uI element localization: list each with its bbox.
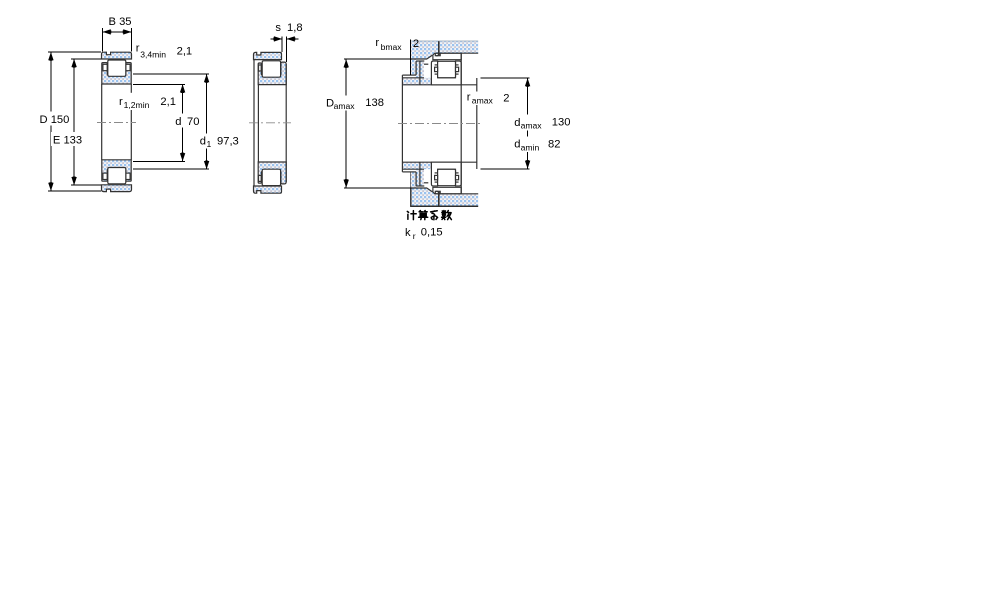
spacer sleeve hatch bottom bbox=[411, 172, 416, 188]
glyph suan bbox=[419, 211, 428, 220]
bearing right face silhouette view3 bbox=[460, 53, 462, 193]
roller top view2 bbox=[262, 61, 280, 77]
svg-text:1,2min: 1,2min bbox=[124, 100, 150, 110]
svg-text:r: r bbox=[119, 96, 123, 108]
centerline view3 bbox=[398, 123, 482, 125]
glyph ji bbox=[407, 211, 416, 220]
cage sections view2 bbox=[259, 65, 262, 71]
bearing outer ring bottom view3 bbox=[433, 187, 461, 193]
svg-text:3,4min: 3,4min bbox=[140, 49, 166, 59]
svg-text:amin: amin bbox=[521, 143, 540, 153]
svg-text:B 35: B 35 bbox=[109, 16, 132, 28]
spacer sleeve hatch top bbox=[411, 59, 416, 75]
svg-text:r: r bbox=[136, 43, 140, 55]
centerline view2 bbox=[249, 122, 291, 124]
silhouette lines view2 bbox=[253, 60, 255, 186]
dimension D 150 bbox=[48, 51, 101, 53]
dimension B 35 bbox=[102, 28, 104, 51]
roller top view1 bbox=[108, 60, 126, 76]
svg-text:d: d bbox=[200, 135, 206, 147]
svg-text:d: d bbox=[514, 117, 520, 129]
svg-text:138: 138 bbox=[365, 97, 384, 109]
housing section top bbox=[411, 41, 478, 59]
roller top view3 bbox=[438, 61, 456, 77]
inner ring bottom section view2 bbox=[258, 162, 286, 184]
svg-text:r: r bbox=[413, 231, 416, 241]
locating pin top bbox=[438, 41, 440, 55]
dimension da max / da min bbox=[480, 77, 529, 79]
svg-text:amax: amax bbox=[472, 95, 494, 105]
label ra max 2 bbox=[466, 92, 497, 106]
cage sections bottom view1 bbox=[103, 173, 107, 179]
svg-text:r: r bbox=[467, 91, 471, 103]
inner ring bottom view3 bbox=[431, 162, 461, 186]
svg-text:2,1: 2,1 bbox=[177, 46, 193, 58]
svg-text:E 133: E 133 bbox=[53, 134, 82, 146]
dimension d1 97,3 bbox=[133, 73, 209, 75]
locating pin bottom bbox=[438, 192, 440, 207]
svg-text:97,3: 97,3 bbox=[217, 135, 239, 147]
cage top view3 bbox=[435, 64, 438, 66]
centerline view1 bbox=[97, 122, 136, 124]
inner ring top view3 bbox=[431, 61, 461, 85]
svg-text:D 150: D 150 bbox=[40, 114, 70, 126]
housing bore line top bbox=[437, 52, 478, 54]
CJK caption 计算系数 bbox=[407, 211, 451, 220]
glyph shu bbox=[442, 211, 452, 220]
inner ring top section view2 bbox=[258, 62, 286, 85]
shaft shoulder bar bottom bbox=[402, 162, 432, 169]
housing shoulder chamfer bottom bbox=[426, 188, 432, 192]
svg-text:d: d bbox=[175, 116, 181, 128]
outer ring top section view1 bbox=[102, 52, 132, 59]
svg-text:2,1: 2,1 bbox=[160, 96, 176, 108]
abutment step lines bottom bbox=[402, 171, 416, 173]
svg-text:1: 1 bbox=[207, 139, 212, 149]
cage sections top view1 bbox=[103, 64, 107, 70]
bore silhouette lines view1 bbox=[101, 84, 103, 160]
svg-text:130: 130 bbox=[552, 116, 571, 128]
svg-text:0,15: 0,15 bbox=[421, 227, 443, 239]
roller bottom view3 bbox=[438, 169, 456, 185]
housing bore line bottom bbox=[437, 193, 478, 195]
shaft left edge bbox=[401, 75, 403, 172]
shaft surface top bbox=[402, 84, 476, 86]
label r1,2min 2,1 bbox=[117, 93, 185, 110]
svg-text:r: r bbox=[375, 37, 379, 49]
svg-text:2: 2 bbox=[503, 93, 509, 105]
housing section bottom bbox=[411, 188, 478, 206]
dimension s 1,8 bbox=[281, 37, 283, 52]
white gap beside inner ring top bbox=[424, 64, 431, 77]
roller bottom view2 bbox=[262, 169, 280, 185]
svg-text:k: k bbox=[405, 227, 411, 239]
inner ring top section view1 bbox=[102, 63, 131, 84]
shaft surface bottom bbox=[402, 161, 476, 163]
glyph xi bbox=[431, 211, 438, 220]
label rb max 2 with leader bbox=[410, 40, 412, 76]
outer ring bottom section view1 bbox=[102, 185, 132, 192]
roller bottom view1 bbox=[108, 168, 126, 184]
inner ring bottom section view1 bbox=[102, 160, 131, 181]
outer ring notch bottom view3 bbox=[435, 191, 440, 193]
svg-text:1,8: 1,8 bbox=[287, 22, 303, 34]
shaft shoulder bar top bbox=[402, 78, 432, 85]
outer ring bottom section view2 bbox=[254, 186, 282, 193]
cage bottom view3 bbox=[435, 181, 438, 183]
outer ring notch top view3 bbox=[435, 53, 440, 55]
svg-text:s: s bbox=[275, 22, 281, 34]
svg-text:bmax: bmax bbox=[381, 42, 403, 52]
svg-text:70: 70 bbox=[187, 116, 199, 128]
svg-text:2: 2 bbox=[413, 38, 419, 50]
svg-text:82: 82 bbox=[548, 138, 560, 150]
dimension E 133 bbox=[71, 58, 101, 60]
dimension d 70 bbox=[133, 83, 185, 85]
housing shoulder chamfer top bbox=[426, 55, 432, 59]
svg-text:d: d bbox=[514, 139, 520, 151]
bearing outer ring top view3 bbox=[433, 53, 461, 59]
right abutment face bbox=[476, 78, 478, 169]
abutment step lines top bbox=[402, 74, 416, 76]
dimension Da max 138 bbox=[344, 58, 426, 60]
svg-text:amax: amax bbox=[521, 121, 543, 131]
svg-text:amax: amax bbox=[334, 101, 356, 111]
outer ring top section view2 bbox=[254, 52, 282, 59]
